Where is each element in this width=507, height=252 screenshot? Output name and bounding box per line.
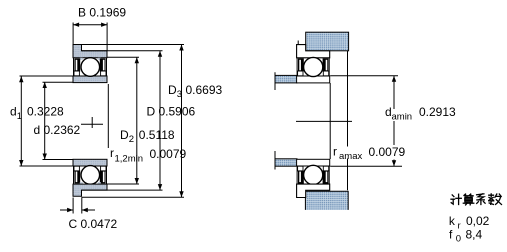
outer ring with flange, bottom right view xyxy=(297,184,330,197)
shoulder edge line bottom xyxy=(274,151,276,170)
svg-text:0.5118: 0.5118 xyxy=(139,128,175,142)
算 xyxy=(464,194,466,196)
notches top right view xyxy=(298,71,303,76)
bearing right face line between sections xyxy=(329,83,331,159)
B dimension line xyxy=(73,24,107,26)
svg-text:amin: amin xyxy=(392,112,413,123)
svg-text:2: 2 xyxy=(129,134,134,145)
d arrows xyxy=(43,82,47,88)
C arrows xyxy=(67,208,73,212)
svg-text:0.6693: 0.6693 xyxy=(186,83,223,97)
inner ring band, bottom section xyxy=(73,159,107,166)
small ext line above right flange xyxy=(297,41,299,45)
ball, bottom section xyxy=(81,166,100,185)
C ext left xyxy=(72,198,74,214)
housing block top xyxy=(306,32,349,51)
svg-text:D 0.5906: D 0.5906 xyxy=(147,105,196,119)
seal left, top section xyxy=(74,58,80,71)
outer ring with flange, bottom section xyxy=(73,184,107,196)
ball top right view xyxy=(304,57,323,76)
d1 ext bottom xyxy=(20,165,74,167)
seals bottom right view xyxy=(298,170,304,183)
系 xyxy=(477,194,484,195)
housing block bottom xyxy=(305,191,348,210)
svg-text:B 0.1969: B 0.1969 xyxy=(78,6,126,20)
groove shoulders top xyxy=(80,58,83,60)
r leader line xyxy=(107,84,109,148)
svg-text:1,2min: 1,2min xyxy=(115,154,144,165)
D2 ext bottom xyxy=(107,183,140,185)
da dimension line xyxy=(393,76,395,167)
d ext bottom xyxy=(43,159,74,161)
svg-text:0.0079: 0.0079 xyxy=(150,147,187,161)
svg-text:amax: amax xyxy=(339,151,362,162)
d1 arrows xyxy=(19,76,23,82)
svg-text:d 0.2362: d 0.2362 xyxy=(34,123,81,137)
svg-text:d: d xyxy=(10,105,17,119)
outer ring with flange, top right view xyxy=(297,45,330,58)
B ext line left xyxy=(72,23,74,45)
notches bottom right view xyxy=(298,166,303,171)
r_amax ext line lower xyxy=(347,159,349,191)
D3 dimension line xyxy=(181,45,183,198)
svg-text:0,02: 0,02 xyxy=(466,214,490,228)
bearing side face lines, right view xyxy=(297,58,329,184)
arrows right view xyxy=(392,76,396,167)
svg-text:0: 0 xyxy=(456,234,461,245)
svg-text:8,4: 8,4 xyxy=(466,228,483,242)
seal groove notch right, top section xyxy=(101,71,106,76)
d dimension line xyxy=(44,82,46,160)
groove shoulders bottom xyxy=(80,182,83,184)
inner ring band bottom right view xyxy=(297,159,330,166)
seal right, top section xyxy=(100,58,106,71)
D ext bottom xyxy=(82,189,163,191)
inner ring band, top section xyxy=(73,76,107,83)
B arrows xyxy=(73,23,79,27)
D3 ext bottom xyxy=(82,196,185,198)
d ext top xyxy=(43,81,74,83)
C dim stub left xyxy=(60,209,73,211)
D3 arrows xyxy=(179,45,183,51)
shaft shoulder bottom xyxy=(275,159,297,166)
axis line right view xyxy=(296,120,352,122)
seal groove notch right, bottom section xyxy=(101,166,106,171)
outer ring with flange, top section xyxy=(73,45,107,58)
svg-text:D: D xyxy=(168,83,177,97)
D3 ext top xyxy=(82,44,185,46)
r_amax ext line upper xyxy=(347,51,349,147)
white gaps behind subscript texts crossing lines xyxy=(390,109,411,121)
svg-text:3: 3 xyxy=(177,89,182,100)
seals top right view xyxy=(298,58,304,71)
D2 ext top xyxy=(107,56,140,58)
svg-text:k: k xyxy=(449,214,456,228)
svg-text:0.3228: 0.3228 xyxy=(27,105,64,119)
right view annotation lines xyxy=(296,51,402,191)
ball bottom right view xyxy=(304,165,323,184)
C ext right xyxy=(81,198,83,214)
D arrows xyxy=(158,51,162,57)
D ext top xyxy=(82,50,163,52)
D dimension line xyxy=(159,51,161,190)
arrows left view xyxy=(19,23,184,213)
inner ring band top right view xyxy=(297,76,330,83)
数 xyxy=(489,194,494,197)
seal right, bottom section xyxy=(100,170,106,183)
da ext bottom xyxy=(330,165,402,167)
计 xyxy=(452,195,454,197)
bearing side face lines, left view xyxy=(73,58,75,76)
svg-text:r: r xyxy=(333,145,337,159)
svg-text:D: D xyxy=(120,128,129,142)
da ext top xyxy=(330,75,398,77)
svg-text:r: r xyxy=(110,146,114,160)
C dim stub right xyxy=(82,209,95,211)
ball, top section xyxy=(81,58,100,77)
d1 dimension line xyxy=(20,76,22,166)
svg-text:C 0.0472: C 0.0472 xyxy=(69,217,118,231)
shaft shoulder top xyxy=(275,75,297,83)
shoulder edge line top xyxy=(274,72,276,90)
seal groove notch left, bottom section xyxy=(74,166,79,171)
D2 arrows xyxy=(135,57,139,63)
D2 dimension line xyxy=(136,57,138,184)
svg-text:1: 1 xyxy=(17,111,22,122)
d1 ext top xyxy=(20,75,74,77)
svg-text:0.2913: 0.2913 xyxy=(419,105,456,119)
seal left, bottom section xyxy=(74,170,80,183)
seal groove notch left, top section xyxy=(74,71,79,76)
B ext line right xyxy=(106,23,108,51)
svg-text:0.0079: 0.0079 xyxy=(369,145,406,159)
svg-text:r: r xyxy=(458,221,461,232)
计算系数 (drawn glyphs) xyxy=(451,194,502,205)
centerline cross xyxy=(81,123,103,125)
